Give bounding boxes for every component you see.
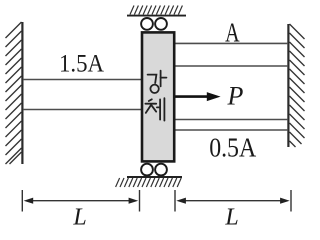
svg-text:A: A (225, 18, 240, 48)
svg-text:1.5A: 1.5A (59, 51, 104, 78)
svg-text:P: P (227, 82, 244, 111)
svg-text:L: L (72, 205, 86, 231)
svg-text:0.5A: 0.5A (209, 133, 256, 163)
svg-text:L: L (224, 205, 238, 231)
